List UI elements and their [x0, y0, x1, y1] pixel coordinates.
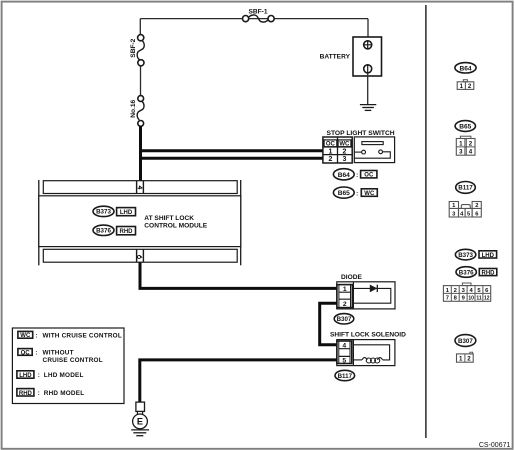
svg-text:B307: B307 — [337, 316, 352, 323]
svg-text::: : — [356, 172, 358, 179]
svg-text:2: 2 — [468, 83, 472, 90]
diode D1 body — [337, 282, 395, 309]
svg-text:1: 1 — [460, 83, 464, 90]
svg-text:2: 2 — [475, 203, 478, 209]
connector diagram B373/B376 12pin — [443, 283, 490, 302]
svg-text:B307: B307 — [458, 338, 473, 345]
legend box — [12, 328, 124, 404]
connector B373 : LHD inside module — [93, 206, 136, 216]
svg-text:12: 12 — [484, 296, 490, 302]
wire: thick bus No.16 to module — [139, 126, 142, 181]
svg-text:B64: B64 — [459, 65, 471, 72]
svg-text::: : — [35, 351, 37, 357]
connector B373 : LHD (right column) — [455, 249, 496, 260]
solenoid L1 body — [337, 340, 395, 366]
module name label — [144, 215, 207, 230]
svg-text:1: 1 — [459, 355, 463, 362]
svg-text:2: 2 — [342, 148, 346, 155]
svg-text:RHD MODEL: RHD MODEL — [44, 390, 85, 397]
connector diagram B64 — [455, 63, 476, 90]
connector B64 : OC — [333, 169, 377, 180]
svg-text:B117: B117 — [458, 185, 473, 192]
svg-text:LHD: LHD — [19, 373, 32, 379]
diode connector pins — [337, 285, 352, 308]
battery B1 — [320, 19, 382, 76]
svg-text:B373: B373 — [96, 209, 111, 216]
svg-text:2: 2 — [467, 355, 471, 362]
connector B307 under diode — [334, 314, 354, 324]
svg-text:B117: B117 — [338, 373, 353, 380]
AT shift lock control module U1 — [39, 180, 241, 265]
svg-text:1: 1 — [459, 141, 463, 148]
svg-text:DIODE: DIODE — [341, 274, 362, 281]
wire: thick branch to stop light switch pin row 1 — [139, 149, 323, 152]
connector B117 under solenoid — [335, 370, 355, 380]
legend LHD row — [17, 371, 84, 379]
svg-text:SBF-1: SBF-1 — [248, 8, 267, 15]
stop light switch body — [354, 137, 394, 163]
svg-text:3: 3 — [342, 156, 346, 163]
connector diagram B307 — [455, 335, 476, 363]
right column divider — [425, 5, 427, 438]
svg-text:OC: OC — [21, 350, 31, 356]
wire: top battery feed — [140, 18, 368, 20]
wire: thick diode to solenoid — [320, 303, 338, 345]
svg-text:WC: WC — [339, 142, 350, 148]
svg-text:SHIFT LOCK SOLENOID: SHIFT LOCK SOLENOID — [330, 332, 406, 339]
svg-text::: : — [35, 333, 37, 339]
svg-text:OC: OC — [364, 173, 374, 179]
svg-text:B64: B64 — [338, 172, 350, 179]
legend OC row — [18, 349, 103, 364]
wire: left vertical feed — [139, 19, 141, 96]
svg-text:STOP LIGHT SWITCH: STOP LIGHT SWITCH — [327, 130, 395, 137]
fuse SBF-2 — [130, 35, 144, 66]
solenoid connector pins — [337, 341, 352, 364]
ground terminal box — [136, 402, 145, 411]
ground node E — [133, 411, 148, 428]
svg-text:WITH CRUISE CONTROL: WITH CRUISE CONTROL — [43, 332, 122, 339]
svg-text:LHD: LHD — [482, 253, 495, 259]
svg-text:2: 2 — [343, 301, 347, 308]
svg-text:2: 2 — [454, 288, 457, 294]
svg-text:B65: B65 — [338, 190, 350, 197]
connector diagram B117 — [449, 182, 481, 218]
svg-text:LHD MODEL: LHD MODEL — [44, 372, 84, 379]
svg-text:B373: B373 — [458, 252, 473, 259]
svg-text:7: 7 — [446, 296, 449, 302]
svg-text::: : — [38, 373, 40, 379]
svg-text:WC: WC — [364, 191, 375, 197]
fuse No.16 — [130, 96, 144, 127]
svg-text:WITHOUT: WITHOUT — [43, 350, 74, 357]
svg-text:RHD: RHD — [120, 229, 134, 235]
stop light switch connector table — [323, 137, 352, 163]
svg-text:SBF-2: SBF-2 — [130, 38, 137, 57]
svg-text::: : — [356, 190, 358, 197]
wire: battery to ground — [367, 73, 369, 105]
svg-text:10: 10 — [468, 296, 474, 302]
svg-text:CONTROL MODULE: CONTROL MODULE — [144, 223, 207, 230]
svg-text:LHD: LHD — [120, 210, 133, 216]
wire: thick solenoid to ground — [140, 360, 337, 402]
svg-text:BATTERY: BATTERY — [320, 54, 351, 61]
svg-text:1: 1 — [328, 148, 332, 155]
svg-text:CRUISE CONTROL: CRUISE CONTROL — [43, 357, 103, 364]
svg-text:2: 2 — [469, 141, 473, 148]
fuse SBF-1 — [243, 8, 275, 22]
svg-text:4: 4 — [342, 342, 346, 349]
svg-text:1: 1 — [343, 286, 347, 293]
svg-text::: : — [38, 391, 40, 397]
legend RHD row — [17, 389, 84, 397]
svg-text:B376: B376 — [96, 228, 111, 235]
svg-text:AT SHIFT LOCK: AT SHIFT LOCK — [144, 215, 194, 222]
ground (battery) — [360, 105, 376, 111]
svg-text:E: E — [137, 417, 143, 427]
legend WC row — [18, 331, 122, 339]
svg-text:B376: B376 — [459, 269, 474, 276]
connector B65 : WC — [333, 187, 377, 198]
connector B376 : RHD (right column) — [456, 267, 497, 278]
svg-text:4: 4 — [469, 149, 473, 156]
connector B376 : RHD inside module — [93, 225, 136, 235]
svg-text:RHD: RHD — [19, 391, 33, 397]
wire: thick module to diode — [140, 262, 338, 288]
svg-text:WC: WC — [20, 333, 31, 339]
svg-text:3: 3 — [459, 149, 463, 156]
svg-text:2: 2 — [328, 156, 332, 163]
wire: thick branch to stop light switch pin row 2 — [139, 157, 323, 160]
svg-text:5: 5 — [342, 357, 346, 364]
svg-text:11: 11 — [476, 296, 482, 302]
svg-text:CS-00671: CS-00671 — [479, 442, 511, 449]
ground symbol (E) — [131, 430, 149, 436]
connector diagram B65 — [455, 121, 475, 156]
svg-text:OC: OC — [326, 142, 336, 148]
svg-text:RHD: RHD — [482, 271, 496, 277]
svg-text:B65: B65 — [459, 124, 471, 131]
svg-text:No.16: No.16 — [130, 100, 137, 118]
